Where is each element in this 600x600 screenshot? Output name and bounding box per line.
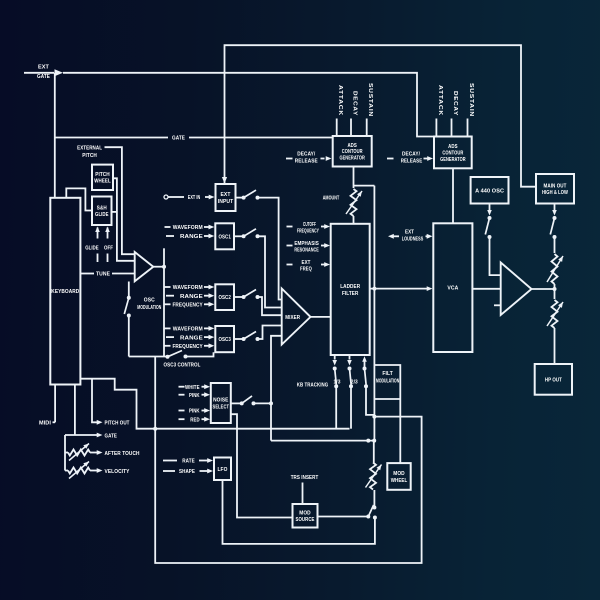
junction noise/mod bbox=[269, 401, 273, 405]
wire: osc3 to mixer bbox=[258, 326, 282, 340]
wire: noise to switch bbox=[231, 402, 242, 404]
label EXT IN bbox=[188, 195, 201, 201]
wire: decay input bbox=[350, 119, 352, 137]
wire: filter contour output bbox=[353, 167, 355, 189]
label AMOUNT bbox=[323, 196, 340, 202]
wire: contour branch to mod rail bbox=[354, 185, 375, 187]
wire: osc mod tap bbox=[128, 282, 130, 298]
arrow pitch out bbox=[97, 420, 103, 425]
svg-text:PITCH OUT: PITCH OUT bbox=[105, 421, 130, 427]
svg-text:WAVEFORM: WAVEFORM bbox=[173, 327, 203, 333]
labels osc1 inputs waveform range bbox=[165, 225, 215, 241]
label FILT MODULATION bbox=[376, 371, 399, 385]
potentiometer: after touch amount bbox=[68, 444, 90, 461]
oscillator 1 bbox=[215, 223, 234, 249]
wire: midi lead bbox=[53, 421, 56, 423]
switch: osc2 on/off bbox=[242, 290, 260, 300]
svg-text:MIXER: MIXER bbox=[285, 315, 300, 321]
arrow on ext gate line bbox=[55, 69, 64, 76]
arrow filter out into vca bbox=[427, 286, 433, 291]
svg-text:CUTOFF: CUTOFF bbox=[303, 222, 316, 228]
labels osc2 inputs bbox=[165, 285, 215, 309]
svg-text:DECAY: DECAY bbox=[352, 91, 358, 116]
svg-text:SOURCE: SOURCE bbox=[296, 517, 315, 523]
switch: osc1 on/off bbox=[242, 229, 260, 239]
svg-text:HP OUT: HP OUT bbox=[545, 377, 562, 383]
wire: kb tracking stub 2/3 bbox=[349, 355, 351, 360]
arrow into ext input top bbox=[222, 177, 227, 184]
svg-text:OSC: OSC bbox=[144, 297, 156, 303]
mod wheel bbox=[387, 463, 410, 490]
wire: glide option stub bbox=[97, 228, 99, 239]
wire: main out to volume pot bbox=[554, 237, 556, 253]
svg-text:GLIDE: GLIDE bbox=[95, 212, 109, 218]
svg-text:2/3: 2/3 bbox=[351, 380, 358, 386]
wire: keyboard cv out to kb tracking line bbox=[80, 379, 349, 429]
svg-text:EXT: EXT bbox=[405, 229, 414, 235]
svg-text:SHAPE: SHAPE bbox=[179, 469, 195, 475]
svg-text:WHEEL: WHEEL bbox=[94, 179, 111, 185]
label ATTACK bbox=[437, 85, 443, 116]
wire: noise to mixer bbox=[254, 336, 282, 404]
potentiometer: main out level bbox=[547, 254, 563, 284]
mod source bbox=[293, 504, 318, 528]
labels lfo rate input bbox=[163, 458, 213, 465]
wire: after touch line bbox=[90, 452, 99, 454]
wire: glide lower stub bbox=[97, 254, 99, 263]
label SUSTAIN bbox=[367, 83, 373, 117]
filter contour generator bbox=[333, 136, 372, 167]
label 2/3 bbox=[351, 380, 358, 386]
wire: mod rail branch to mod wheel bbox=[374, 365, 400, 463]
arrow main out down bbox=[552, 210, 557, 216]
wire: a440 stub bbox=[489, 204, 491, 212]
label TUNE bbox=[96, 272, 110, 278]
arrow velocity bbox=[97, 468, 103, 473]
label GATE on gate bus bbox=[172, 136, 185, 142]
wire: switch to mod pot bbox=[373, 490, 375, 508]
label GATE out bbox=[105, 433, 118, 439]
svg-text:ATTACK: ATTACK bbox=[437, 85, 443, 116]
svg-text:PITCH: PITCH bbox=[82, 153, 97, 159]
label OFF bbox=[104, 246, 113, 252]
labels decay/release into filter contour bbox=[286, 151, 332, 164]
wire: noise tap to mod line bbox=[270, 403, 272, 440]
wire: filt modulation frame bottom bbox=[374, 398, 400, 400]
sample-hold glide bbox=[92, 197, 112, 226]
svg-text:OFF: OFF bbox=[104, 246, 113, 252]
potentiometer: headphone level bbox=[547, 300, 563, 328]
wire: ext input to mixer bbox=[258, 198, 282, 300]
wire: gate rail down to keyboard bbox=[54, 73, 56, 198]
labels lfo shape input bbox=[163, 469, 213, 476]
svg-text:EMPHASIS: EMPHASIS bbox=[294, 241, 319, 247]
svg-text:GENERATOR: GENERATOR bbox=[339, 156, 365, 162]
svg-text:1/3: 1/3 bbox=[334, 380, 341, 386]
wire: decay input bbox=[451, 119, 453, 137]
wire: sustain input bbox=[467, 119, 469, 137]
svg-text:LFO: LFO bbox=[218, 467, 228, 473]
svg-text:FILT: FILT bbox=[382, 371, 393, 377]
svg-text:CONTOUR: CONTOUR bbox=[442, 150, 463, 156]
svg-text:SUSTAIN: SUSTAIN bbox=[468, 83, 474, 117]
junction mod rail at loop bbox=[372, 415, 376, 419]
wire: velocity line bbox=[90, 470, 99, 472]
svg-text:FREQ: FREQ bbox=[300, 267, 312, 273]
labels osc3 inputs bbox=[165, 326, 215, 350]
label SUSTAIN bbox=[468, 83, 474, 117]
wire: attack input bbox=[435, 119, 437, 137]
svg-text:MIDI: MIDI bbox=[39, 421, 51, 427]
label ATTACK bbox=[337, 85, 343, 116]
junction pitch rail bbox=[162, 265, 166, 269]
wire: after touch lead bbox=[65, 452, 68, 454]
wire: noise select aux to mod source bbox=[231, 414, 293, 517]
wire: trs insert into mod source bbox=[302, 483, 304, 505]
arrow after touch bbox=[97, 450, 103, 455]
switch: kb tracking 2/3 bbox=[348, 367, 354, 389]
switch: kb tracking 1/3 bbox=[333, 367, 339, 389]
svg-text:OSC2: OSC2 bbox=[218, 295, 231, 301]
oscillator 2 bbox=[215, 284, 234, 310]
label GLIDE bbox=[85, 246, 99, 252]
svg-text:GENERATOR: GENERATOR bbox=[440, 157, 466, 163]
main out high and low bbox=[536, 174, 574, 204]
svg-text:EXT: EXT bbox=[221, 192, 231, 198]
svg-text:WHITE: WHITE bbox=[185, 385, 200, 391]
wire: pitch summer output to osc cv rail bbox=[153, 266, 164, 268]
wire: attack input bbox=[336, 119, 338, 137]
label MIDI bbox=[39, 421, 51, 427]
wire: tune right segment bbox=[112, 273, 135, 275]
wire: tune (keyboard to pitch summer) left bbox=[80, 273, 94, 275]
label DECAY bbox=[352, 91, 358, 116]
arrow kb tracking 1/3 bbox=[332, 360, 337, 366]
wire: osc3 to switch bbox=[234, 338, 244, 340]
switch: osc3 on/off bbox=[242, 332, 260, 342]
svg-text:S&H: S&H bbox=[97, 206, 107, 212]
op-amp output amplifier bbox=[501, 263, 532, 316]
wire: keyboard bottom rail 2 bbox=[74, 385, 76, 436]
arrow a440 down bbox=[487, 210, 492, 216]
switch: noise on/off bbox=[240, 396, 256, 406]
switch: filt modulation bbox=[363, 367, 369, 389]
labels noise inputs pink red bbox=[179, 408, 211, 423]
svg-text:ADS: ADS bbox=[448, 144, 458, 150]
svg-text:LOUDNESS: LOUDNESS bbox=[402, 236, 424, 242]
wire: keyboard cv to sample-hold glide bbox=[66, 188, 92, 210]
svg-text:MOD: MOD bbox=[299, 511, 311, 517]
svg-text:RED: RED bbox=[190, 417, 199, 423]
svg-text:TUNE: TUNE bbox=[96, 272, 110, 278]
oscillator 3 bbox=[215, 326, 234, 352]
arrow gate out bbox=[97, 433, 103, 438]
wire: out amp lower stub bbox=[494, 304, 501, 306]
wire: filter output to vca bbox=[370, 288, 427, 290]
svg-text:PINK: PINK bbox=[189, 409, 200, 415]
vca bbox=[433, 223, 472, 352]
switch: main out bbox=[550, 216, 556, 239]
svg-text:ATTACK: ATTACK bbox=[337, 85, 343, 116]
wire: mixer output to filter bbox=[311, 316, 331, 318]
wire: ext in lead bbox=[168, 196, 184, 198]
wire: osc2 to mixer bbox=[258, 297, 282, 315]
wire: pot to output node bbox=[554, 284, 556, 289]
switch: ext input on/off bbox=[242, 190, 260, 200]
svg-text:SUSTAIN: SUSTAIN bbox=[367, 83, 373, 117]
label EXTERNAL PITCH bbox=[77, 146, 102, 159]
wire: sustain input bbox=[366, 119, 368, 137]
svg-text:VCA: VCA bbox=[447, 286, 459, 292]
label AFTER TOUCH bbox=[105, 451, 140, 457]
svg-text:HIGH & LOW: HIGH & LOW bbox=[542, 190, 569, 196]
wire: osc1 to switch bbox=[234, 235, 244, 237]
svg-text:GATE: GATE bbox=[37, 74, 50, 80]
potentiometer: mod wheel amount bbox=[366, 463, 382, 490]
wire: mod source output bbox=[318, 516, 367, 518]
keyboard bbox=[50, 198, 80, 385]
arrow off into s&h bbox=[105, 227, 110, 233]
arrow glide into s&h bbox=[95, 227, 100, 233]
wire: osc3 control line right into osc3 bbox=[186, 352, 214, 356]
arrow filt modulation into filter bbox=[362, 356, 367, 362]
arrow ext in bbox=[209, 195, 215, 200]
wire: gate bus to filter contour (left segment) bbox=[55, 137, 168, 139]
external input bbox=[216, 184, 236, 211]
wire: keyboard to midi rail bbox=[54, 385, 56, 423]
label VELOCITY bbox=[105, 469, 130, 475]
labels noise inputs white pink bbox=[179, 384, 211, 399]
wire: main-out feedback bus to external input and main out bbox=[225, 45, 537, 187]
wire: off lower stub bbox=[107, 254, 109, 263]
a-440 oscillator bbox=[471, 177, 509, 204]
loudness contour generator bbox=[434, 137, 472, 169]
wire: hp pot to hp out bbox=[554, 328, 556, 364]
svg-text:KEYBOARD: KEYBOARD bbox=[51, 289, 79, 295]
svg-text:OSC3: OSC3 bbox=[218, 337, 231, 343]
wire: osc pitch cv rail bbox=[163, 248, 165, 356]
junction mod line a bbox=[366, 439, 370, 443]
svg-text:LADDER: LADDER bbox=[340, 284, 361, 290]
mixer amplifier bbox=[282, 289, 311, 345]
svg-text:RELEASE: RELEASE bbox=[401, 158, 423, 164]
wire: osc1 to mixer bbox=[258, 236, 282, 307]
svg-text:RANGE: RANGE bbox=[180, 234, 203, 240]
wire: ext gate input lead bbox=[24, 72, 54, 74]
ladder filter bbox=[331, 224, 370, 355]
noise select bbox=[211, 383, 231, 423]
wire: mod line bbox=[271, 440, 374, 442]
wire: osc modulation down to osc3 control line bbox=[128, 316, 130, 357]
wire: off option stub bbox=[107, 228, 109, 239]
svg-text:WHEEL: WHEEL bbox=[391, 478, 408, 484]
labels ext loudness input bbox=[388, 229, 433, 242]
label OSC3 CONTROL bbox=[164, 362, 201, 368]
label TRS INSERT bbox=[291, 475, 319, 481]
svg-text:MODULATION: MODULATION bbox=[137, 305, 161, 311]
svg-text:EXT: EXT bbox=[38, 65, 49, 71]
label EXT GATE bbox=[37, 65, 50, 80]
svg-text:DECAY/: DECAY/ bbox=[297, 151, 315, 157]
svg-text:FREQUENCY: FREQUENCY bbox=[297, 229, 319, 235]
wire: pitch wheel to pitch summer bbox=[113, 178, 135, 260]
svg-text:A 440 OSC: A 440 OSC bbox=[475, 188, 504, 194]
svg-text:GATE: GATE bbox=[172, 136, 185, 142]
label KB TRACKING bbox=[297, 382, 329, 388]
svg-text:RESONANCE: RESONANCE bbox=[294, 248, 319, 254]
wire: aftertouch-velocity rail bbox=[64, 435, 66, 471]
arrow kb tracking 2/3 bbox=[347, 360, 352, 366]
svg-text:DECAY/: DECAY/ bbox=[402, 151, 420, 157]
svg-text:OSC3 CONTROL: OSC3 CONTROL bbox=[164, 362, 201, 368]
wire: contour/mod rail bbox=[373, 186, 375, 441]
labels filter cutoff frequency input bbox=[287, 222, 331, 234]
wire: out amp to output node bbox=[532, 288, 555, 290]
labels filter emphasis resonance input bbox=[287, 241, 331, 253]
wire: pitch out riser bbox=[92, 379, 99, 423]
labels decay/release into loudness contour bbox=[387, 151, 433, 164]
wire: filt modulation drop bbox=[366, 386, 374, 415]
svg-text:FREQUENCY: FREQUENCY bbox=[172, 303, 202, 309]
wire: lfo output loop bbox=[223, 480, 375, 544]
svg-text:MOD: MOD bbox=[393, 471, 405, 477]
svg-text:RANGE: RANGE bbox=[180, 294, 203, 300]
svg-text:RANGE: RANGE bbox=[180, 335, 203, 341]
wire: output node to hp pot bbox=[554, 289, 556, 299]
svg-text:DECAY: DECAY bbox=[452, 91, 458, 116]
svg-text:FILTER: FILTER bbox=[342, 291, 359, 297]
wire: kb tracking 1/3 drop bbox=[335, 386, 337, 428]
wire: loudness contour to vca bbox=[452, 168, 454, 223]
wire: velocity lead bbox=[65, 470, 68, 472]
switch: osc modulation bbox=[124, 296, 131, 318]
svg-text:AMOUNT: AMOUNT bbox=[323, 196, 340, 202]
svg-text:OSC1: OSC1 bbox=[218, 234, 231, 240]
label DECAY bbox=[452, 91, 458, 116]
label PITCH OUT bbox=[105, 421, 130, 427]
svg-text:ADS: ADS bbox=[347, 143, 357, 149]
pitch wheel bbox=[92, 165, 113, 190]
svg-text:SELECT: SELECT bbox=[213, 404, 230, 410]
wire: main out stub bbox=[554, 204, 556, 212]
label OSC MODULATION bbox=[137, 297, 161, 311]
svg-text:INPUT: INPUT bbox=[218, 199, 234, 205]
svg-text:VELOCITY: VELOCITY bbox=[105, 469, 130, 475]
svg-text:EXT IN: EXT IN bbox=[188, 195, 201, 201]
svg-text:FREQUENCY: FREQUENCY bbox=[172, 344, 202, 350]
svg-text:MAIN OUT: MAIN OUT bbox=[544, 183, 567, 189]
wire: mod rail down from osc3 control bbox=[154, 357, 156, 429]
labels filter ext freq input bbox=[287, 260, 331, 272]
svg-text:EXT: EXT bbox=[302, 260, 311, 266]
wire: osc3 control line left bbox=[129, 356, 168, 358]
wire: a440 into out amp bbox=[490, 237, 501, 275]
wire: contour into filter top bbox=[353, 216, 355, 223]
wire: external pitch to pitch summer bbox=[105, 147, 135, 254]
wire: kb tracking 2/3 drop bbox=[350, 386, 352, 428]
wire: vca output to out amp bbox=[472, 288, 500, 290]
svg-text:PITCH: PITCH bbox=[95, 172, 110, 178]
svg-text:GLIDE: GLIDE bbox=[85, 246, 99, 252]
svg-text:PINK: PINK bbox=[189, 393, 200, 399]
svg-text:RATE: RATE bbox=[182, 459, 195, 465]
svg-text:MODULATION: MODULATION bbox=[376, 378, 399, 384]
svg-text:RELEASE: RELEASE bbox=[295, 158, 318, 164]
svg-text:KB TRACKING: KB TRACKING bbox=[297, 382, 329, 388]
svg-text:WAVEFORM: WAVEFORM bbox=[173, 225, 203, 231]
wire: ext gate bus to loudness contour bbox=[63, 73, 434, 137]
switch: osc3 control bbox=[166, 351, 188, 359]
junction mod rail / kb line bbox=[153, 427, 157, 431]
junction mod line b bbox=[372, 439, 376, 443]
svg-text:TRS INSERT: TRS INSERT bbox=[291, 475, 319, 481]
switch: a440 on/off bbox=[485, 216, 491, 239]
wire: gate out line bbox=[65, 434, 99, 436]
junction output node bbox=[553, 287, 557, 291]
svg-text:CONTOUR: CONTOUR bbox=[342, 149, 363, 155]
wire: ext input to switch bbox=[236, 197, 244, 199]
potentiometer: velocity amount bbox=[68, 462, 90, 479]
label 1/3 bbox=[334, 380, 341, 386]
potentiometer: contour amount bbox=[346, 189, 362, 216]
junction filter-out / mod rail bbox=[372, 287, 376, 291]
svg-text:EXTERNAL: EXTERNAL bbox=[77, 146, 102, 152]
wire: mod routing bottom loop bbox=[155, 417, 421, 563]
wire: mod pot top bbox=[373, 441, 375, 463]
switch: mod source select bbox=[366, 505, 377, 520]
wire: osc2 to switch bbox=[234, 296, 244, 298]
wire: gate bus to filter contour (right segment) bbox=[189, 137, 333, 139]
wire: filt modulation stub bbox=[364, 361, 366, 369]
svg-text:AFTER TOUCH: AFTER TOUCH bbox=[105, 451, 140, 457]
svg-text:GATE: GATE bbox=[105, 433, 118, 439]
headphone output bbox=[535, 364, 572, 395]
wire: ext in arrow lead bbox=[205, 196, 210, 198]
svg-text:NOISE: NOISE bbox=[213, 398, 228, 404]
wire: sample-hold glide output tee bbox=[112, 211, 117, 213]
node: ext in jack bbox=[164, 195, 168, 199]
op-amp pitch summer bbox=[135, 252, 154, 281]
lfo bbox=[214, 458, 231, 481]
wire: kb tracking stub 1/3 bbox=[334, 355, 336, 360]
svg-text:WAVEFORM: WAVEFORM bbox=[173, 285, 203, 291]
